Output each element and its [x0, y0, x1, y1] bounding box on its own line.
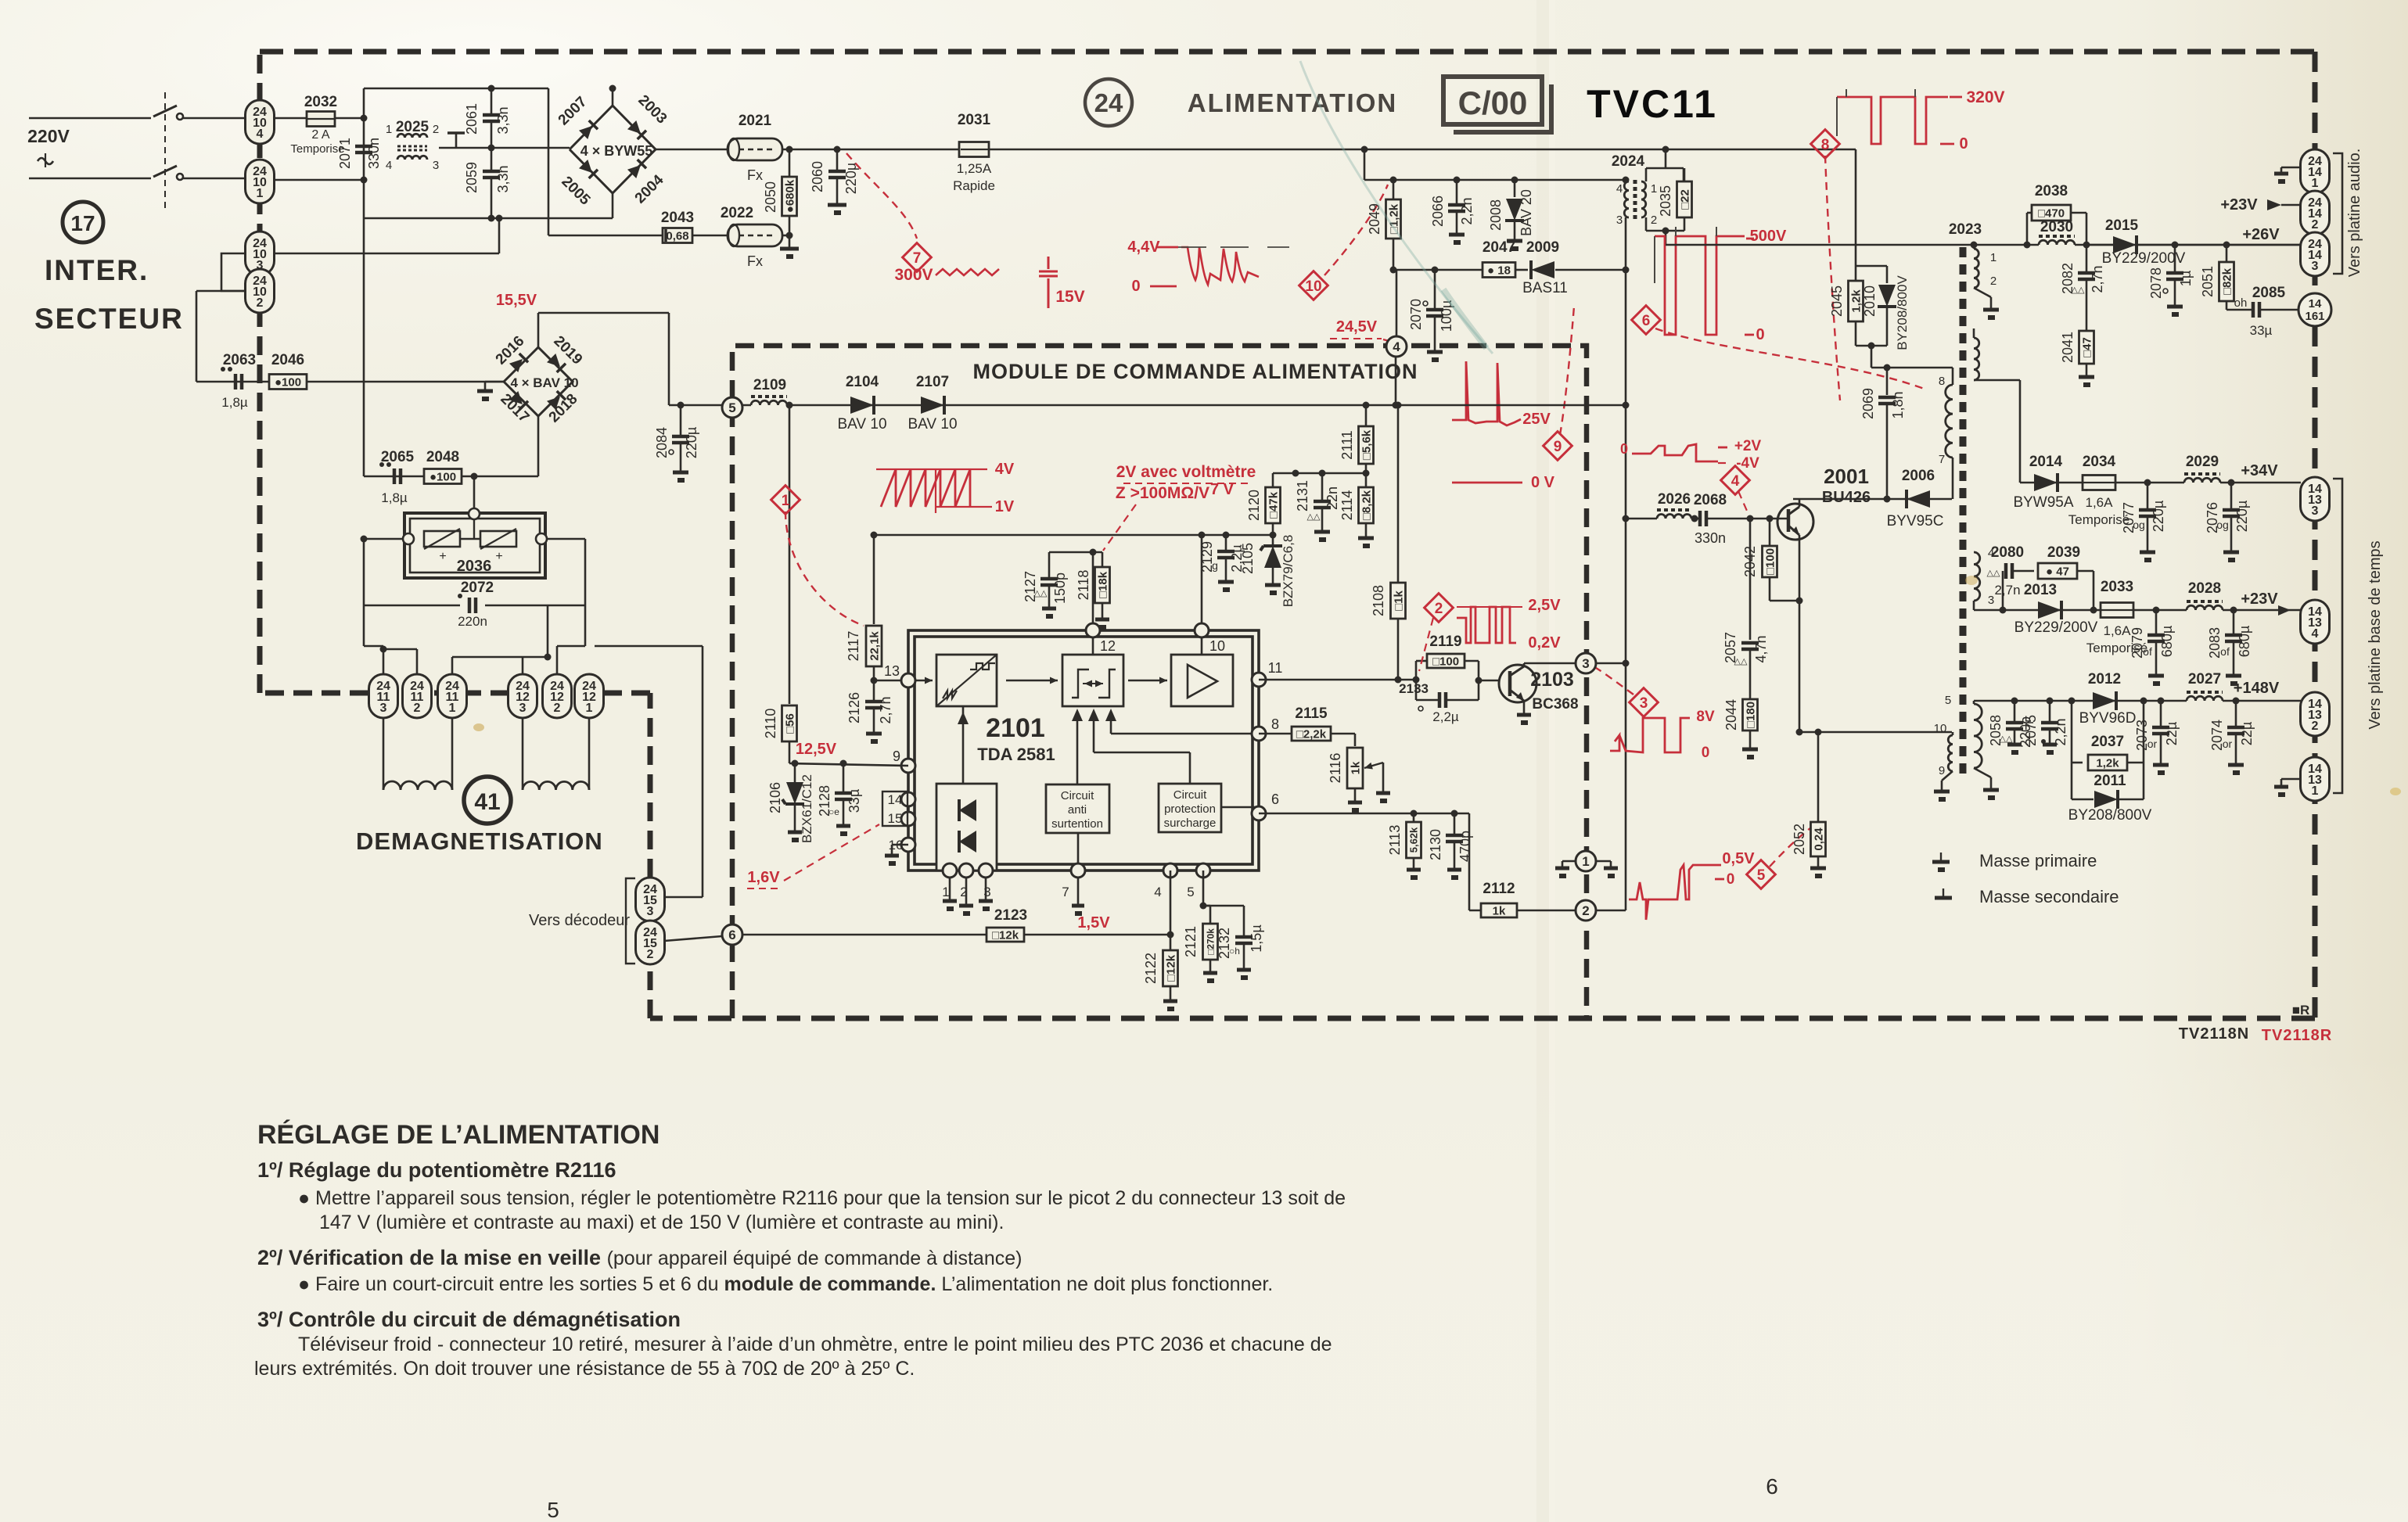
svg-text:470p: 470p	[1457, 831, 1473, 862]
svg-text:12,5V: 12,5V	[796, 741, 837, 758]
module dashed box	[732, 346, 1587, 1018]
svg-text:□5,6k: □5,6k	[1360, 429, 1373, 460]
outer dashed border notch vertical	[648, 693, 653, 1018]
svg-text:2109: 2109	[753, 377, 786, 393]
red dashed from 9 up	[1560, 307, 1574, 435]
svg-text:2107: 2107	[916, 374, 949, 390]
svg-text:9: 9	[1554, 439, 1562, 455]
svg-text:2117: 2117	[846, 631, 861, 662]
svg-text:220µ: 220µ	[2234, 501, 2250, 532]
svg-text:11: 11	[1268, 660, 1283, 676]
svg-text:2,2n: 2,2n	[1459, 197, 1475, 224]
svg-text:10: 10	[1934, 722, 1947, 735]
junction rail to 2024	[1662, 146, 1669, 153]
svg-text:2113: 2113	[1387, 825, 1403, 856]
svg-text:2,2µ: 2,2µ	[1432, 709, 1459, 724]
svg-text:BAV 10: BAV 10	[837, 416, 886, 433]
connector 24-10-3	[246, 232, 275, 275]
IC block amplifier	[1171, 655, 1233, 706]
svg-text:□8,2k: □8,2k	[1360, 490, 1373, 520]
shield mark	[447, 131, 465, 135]
wire circled4 into module	[1395, 357, 1397, 405]
svg-text:4: 4	[2312, 627, 2319, 641]
border node circle 4	[1386, 336, 1407, 357]
connector 24-10-2	[246, 269, 275, 313]
svg-text:2014: 2014	[2029, 454, 2063, 470]
svg-text:2: 2	[257, 296, 264, 310]
IC pin 16	[901, 838, 915, 852]
svg-text:2103: 2103	[1530, 669, 1574, 691]
svg-text:BU426: BU426	[1822, 489, 1871, 506]
test point diamond 7	[903, 243, 932, 272]
red test point diamond 1	[771, 486, 800, 515]
svg-text:+34V: +34V	[2241, 462, 2278, 479]
svg-text:2041: 2041	[2060, 332, 2076, 363]
svg-text:2047: 2047	[1483, 239, 1515, 256]
IC pin 4	[1163, 863, 1177, 878]
svg-text:1: 1	[257, 187, 264, 200]
svg-text:BAV 10: BAV 10	[907, 416, 957, 433]
test point diamond 10	[1299, 271, 1328, 300]
svg-text:0,2V: 0,2V	[1528, 634, 1561, 652]
svg-text:□18k: □18k	[1096, 571, 1109, 598]
svg-text:22n: 22n	[1324, 486, 1340, 510]
svg-text:2 A: 2 A	[311, 128, 329, 142]
svg-text:2029: 2029	[2186, 454, 2219, 470]
node circle 6	[722, 924, 742, 945]
svg-text:2114: 2114	[1339, 490, 1355, 521]
svg-text:9: 9	[893, 748, 900, 764]
svg-text:2032: 2032	[304, 94, 337, 110]
svg-text:2013: 2013	[2024, 582, 2057, 598]
red dashed from 10 to node	[1324, 185, 1388, 275]
connector 24-15-2	[664, 936, 722, 941]
svg-text:0: 0	[1959, 135, 1968, 153]
IC internal wires	[1006, 680, 1058, 682]
IC pin 8	[1252, 727, 1266, 741]
svg-text:2071: 2071	[337, 138, 353, 169]
PTC block 2036	[404, 513, 545, 578]
svg-text:22µ: 22µ	[2164, 722, 2180, 745]
svg-text:2038: 2038	[2035, 183, 2068, 199]
svg-text:22µ: 22µ	[2239, 722, 2255, 745]
svg-text:0: 0	[1702, 745, 1710, 761]
IC pin 10	[1195, 623, 1209, 637]
svg-text:7: 7	[1939, 453, 1945, 466]
wire rail to 2049	[1364, 149, 1366, 180]
wire 2035 junction down to +26V rail	[1665, 231, 1667, 245]
svg-text:□56: □56	[783, 713, 796, 734]
svg-text:2021: 2021	[739, 113, 772, 129]
svg-text:220µ: 220µ	[2151, 501, 2166, 532]
svg-text:□470: □470	[2038, 206, 2065, 220]
svg-text:BAS11: BAS11	[1522, 280, 1568, 296]
svg-text:1,8µ: 1,8µ	[381, 490, 408, 505]
resistor 2115 2,2k	[1259, 733, 1291, 735]
svg-text:2: 2	[414, 702, 421, 715]
capacitor 2069 1,8n	[1886, 368, 1889, 395]
svg-text:TV2118R: TV2118R	[2262, 1027, 2332, 1044]
svg-text:1,8n: 1,8n	[1890, 391, 1906, 418]
connector 24-10-4	[246, 100, 275, 144]
wire bridge top to 15,5V	[537, 313, 540, 347]
capacitor 2083 680u	[2230, 607, 2237, 614]
svg-text:□180: □180	[1744, 702, 1757, 728]
test point diamond 6	[1632, 306, 1661, 335]
resistor 2052 0,24	[1817, 732, 1820, 821]
svg-text:1º/ Réglage du potentiomètre: 1º/ Réglage du potentiomètre R2116	[257, 1158, 616, 1182]
resistor 2120 47k	[1272, 473, 1274, 486]
svg-text:3º/ Contrôle du circuit de dé: 3º/ Contrôle du circuit de démagnétisati…	[257, 1308, 681, 1331]
connector 14-13-3	[2301, 477, 2330, 521]
wire filter to 2065 row	[363, 218, 365, 476]
svg-text:2078: 2078	[2148, 267, 2164, 299]
transformer 2023 core	[1960, 247, 1967, 781]
capacitor 2127 150p	[1048, 552, 1051, 577]
svg-text:2122: 2122	[1143, 953, 1159, 984]
svg-text:□12k: □12k	[1164, 954, 1177, 982]
capacitor 2073 22u	[2158, 698, 2165, 705]
svg-text:+: +	[495, 550, 502, 563]
capacitor 2084 220u	[680, 405, 682, 435]
capacitor 2060 220u	[836, 149, 839, 171]
svg-text:○h: ○h	[1229, 946, 1240, 957]
test point diamond 4	[1721, 466, 1750, 495]
resistor 2114 8,2k	[1365, 473, 1368, 486]
svg-text:TVC11: TVC11	[1587, 82, 1718, 126]
red waveform 8V	[1610, 718, 1690, 752]
svg-text:RÉGLAGE DE L’ALIMENTATION: RÉGLAGE DE L’ALIMENTATION	[257, 1120, 660, 1150]
svg-text:2108: 2108	[1371, 585, 1386, 616]
red waveform 500V	[1655, 236, 1745, 335]
svg-text:● Mettre l’appareil sous tens: ● Mettre l’appareil sous tension, régler…	[298, 1187, 1346, 1209]
svg-text:2080: 2080	[1991, 544, 2024, 561]
svg-text:2043: 2043	[661, 210, 694, 226]
red dashed 1 to pin13 node	[785, 512, 864, 626]
potentiometer 2116 1k	[1354, 734, 1357, 746]
svg-text:2: 2	[2312, 720, 2319, 733]
svg-text:+23V: +23V	[2241, 590, 2278, 608]
switch 17 bottom contact	[153, 166, 177, 177]
svg-text:3: 3	[433, 159, 439, 172]
svg-text:4: 4	[1731, 473, 1740, 490]
svg-text:2: 2	[433, 123, 439, 136]
capacitor 2126 2,7n	[873, 680, 875, 702]
svg-text:10: 10	[1305, 278, 1321, 295]
bridge 2037 1,2k and 2011	[2071, 701, 2073, 763]
svg-text:3: 3	[380, 702, 387, 715]
zener 2105 BZX79/C6,8	[1272, 535, 1274, 547]
svg-text:BZX79/C6,8: BZX79/C6,8	[1281, 535, 1296, 608]
svg-text:2,7n: 2,7n	[1994, 583, 2020, 598]
svg-text:3: 3	[983, 885, 990, 899]
svg-text:220µ: 220µ	[684, 427, 699, 458]
svg-text:220µ: 220µ	[843, 163, 859, 194]
connector 24-11-3	[369, 674, 398, 718]
svg-text:2133: 2133	[1399, 681, 1429, 696]
capacitor 2131 22n	[1321, 473, 1324, 501]
svg-text:C/00: C/00	[1458, 84, 1528, 121]
svg-text:BY229/200V: BY229/200V	[2102, 250, 2186, 267]
IC pin 15	[901, 812, 915, 826]
wire snubber down	[1871, 346, 1873, 368]
svg-text:15,5V: 15,5V	[496, 292, 537, 309]
svg-text:2023: 2023	[1949, 221, 1982, 238]
op-amp IC 2101 TDA2581 outline	[908, 630, 1259, 870]
jumper 24-10-3 to 24-10-2	[221, 253, 246, 291]
svg-text:og: og	[2216, 519, 2229, 531]
row 2047 BAS11	[1393, 269, 1486, 271]
wire 2024 pin3 down long vertical	[1625, 217, 1627, 910]
svg-text:25V: 25V	[1522, 411, 1551, 428]
15,5V feed wire	[538, 312, 669, 314]
svg-text:2060: 2060	[810, 161, 825, 192]
svg-text:2009: 2009	[1526, 239, 1559, 256]
svg-text:+2V: +2V	[1734, 438, 1762, 454]
connector 24-12-2	[543, 674, 572, 718]
svg-text:surcharge: surcharge	[1164, 817, 1217, 830]
svg-text:2116: 2116	[1328, 753, 1343, 784]
svg-text:2120: 2120	[1246, 490, 1262, 521]
svg-text:2: 2	[554, 702, 561, 715]
IC block comparator	[1062, 655, 1123, 706]
test point diamond 5	[1747, 860, 1776, 889]
svg-text:1k: 1k	[1349, 761, 1362, 774]
wire pin13	[874, 680, 908, 682]
svg-text:1µ: 1µ	[2178, 271, 2194, 286]
svg-text:+23V: +23V	[2220, 196, 2258, 214]
svg-text:2131: 2131	[1295, 480, 1310, 512]
svg-text:TDA 2581: TDA 2581	[977, 745, 1055, 764]
red waveform 0,5V	[1629, 865, 1721, 920]
wire 24-10-1 to filter	[274, 179, 364, 181]
+26V rail	[1666, 244, 2039, 246]
wire node6 row	[742, 934, 987, 936]
svg-text:147 V (lumière et contraste au: 147 V (lumière et contraste au maxi) et …	[319, 1211, 1004, 1233]
grounds at circle 1	[1562, 860, 1576, 863]
connector 24-15-3	[664, 896, 703, 899]
red waveform 320V	[1837, 97, 1948, 144]
capacitor 2074 22u	[2233, 698, 2240, 705]
svg-text:1,6V: 1,6V	[747, 869, 780, 886]
wire bridge bottom	[612, 193, 614, 218]
svg-text:1V: 1V	[995, 498, 1015, 515]
transformer 2023 winding +34V tap	[1974, 338, 1979, 380]
wire mains bottom	[29, 178, 151, 180]
svg-text:2070: 2070	[1408, 299, 1424, 330]
capacitor 2058 220p	[2011, 698, 2018, 705]
filter mid rail	[439, 147, 570, 149]
svg-text:6: 6	[1642, 313, 1651, 329]
svg-text:2012: 2012	[2088, 671, 2121, 687]
wire pin6 out	[1259, 813, 1469, 815]
wire main rail to fuse 2031	[782, 149, 961, 151]
ground stub 24-14-1	[2281, 167, 2301, 169]
svg-text:2050: 2050	[763, 181, 778, 213]
svg-text:14: 14	[888, 792, 903, 807]
resistor 2110 56	[789, 405, 791, 704]
svg-text:0 V: 0 V	[1531, 474, 1555, 491]
svg-text:2: 2	[647, 948, 654, 961]
svg-text:680µ: 680µ	[2159, 626, 2175, 657]
red dashed to test point 7	[846, 153, 917, 239]
connector 24-10-1	[246, 160, 275, 203]
red waveform 25V	[1452, 361, 1521, 425]
svg-text:or: or	[2147, 738, 2158, 750]
wire node to circled 4	[1396, 270, 1398, 336]
svg-text:3: 3	[2312, 260, 2319, 273]
pins 14 15 box	[882, 792, 907, 826]
svg-text:0: 0	[1727, 871, 1735, 888]
red capacitor symbol 15V	[1048, 257, 1050, 269]
diode bridge 4xBAV10	[504, 347, 573, 416]
svg-text:5: 5	[1945, 694, 1951, 707]
svg-text:5: 5	[728, 400, 735, 415]
wire pin10 riser	[1201, 535, 1203, 630]
svg-text:2119: 2119	[1429, 634, 1461, 650]
wire pin5 riser	[1202, 870, 1205, 906]
svg-text:△△: △△	[2000, 734, 2013, 744]
svg-text:2037: 2037	[2091, 734, 2124, 750]
svg-text:△△: △△	[1307, 512, 1321, 522]
connector 14-161	[2298, 293, 2331, 326]
IC pin 11	[1252, 673, 1266, 687]
resistor 2051 82k	[2223, 242, 2230, 249]
svg-text:○e: ○e	[828, 806, 839, 817]
svg-text:4: 4	[257, 127, 264, 141]
svg-text:2123: 2123	[994, 907, 1027, 924]
svg-text:Masse secondaire: Masse secondaire	[1979, 887, 2119, 906]
svg-text:1,5V: 1,5V	[1077, 914, 1110, 932]
row 2065 2048	[364, 476, 538, 478]
svg-text:1,5µ: 1,5µ	[1249, 924, 1264, 952]
svg-text:leurs extrémités. On doit trou: leurs extrémités. On doit trouver une ré…	[254, 1358, 915, 1380]
filter box bottom rail	[364, 217, 613, 220]
svg-text:161: 161	[2305, 310, 2324, 323]
wire collector to node 3	[1524, 662, 1576, 665]
resistor 2111 5,6k	[1365, 405, 1368, 426]
svg-text:2111: 2111	[1339, 430, 1355, 459]
svg-text:2008: 2008	[1488, 199, 1504, 231]
svg-text:2059: 2059	[464, 162, 480, 193]
svg-text:2: 2	[1582, 903, 1589, 918]
svg-text:2,7n: 2,7n	[2090, 265, 2105, 293]
svg-text:1: 1	[1582, 854, 1589, 869]
mains symbol	[38, 158, 53, 164]
svg-text:□100: □100	[1432, 655, 1459, 668]
svg-text:●680k: ●680k	[783, 179, 796, 213]
demag coil right	[522, 718, 524, 782]
svg-text:3: 3	[1988, 594, 1994, 607]
svg-text:6: 6	[1766, 1474, 1778, 1499]
svg-text:1,6A: 1,6A	[2086, 495, 2114, 510]
svg-text:2031: 2031	[958, 112, 991, 128]
svg-text:BAV 20: BAV 20	[1518, 189, 1534, 236]
svg-text:0,24: 0,24	[1812, 827, 1825, 851]
svg-text:2035: 2035	[1658, 185, 1673, 217]
resistor 2113 5,62k	[1413, 813, 1415, 821]
wire 2036 right	[547, 538, 585, 540]
red label 320V	[1950, 96, 1962, 99]
svg-text:+148V: +148V	[2234, 680, 2280, 697]
divider wire 605	[1273, 472, 1366, 475]
svg-text:0,5V: 0,5V	[1722, 850, 1755, 867]
diode 2008 BAV20	[1514, 180, 1516, 197]
svg-text:2011: 2011	[2094, 773, 2126, 789]
PTC resistor left	[424, 531, 460, 547]
svg-text:△△: △△	[1987, 569, 2000, 578]
svg-text:Circuit: Circuit	[1061, 789, 1094, 802]
capacitor 2128 33u	[843, 763, 845, 793]
resistor 2108 1k riser	[1397, 405, 1400, 680]
red dashed from 8 down	[1825, 156, 1840, 400]
7V rail	[874, 534, 1273, 537]
svg-text:2034: 2034	[2083, 454, 2116, 470]
svg-text:Téléviseur froid - connecteur: Téléviseur froid - connecteur 10 retiré,…	[298, 1334, 1332, 1355]
svg-text:6: 6	[728, 928, 735, 942]
svg-text:5,62k: 5,62k	[1408, 827, 1420, 853]
main rail 300V	[988, 149, 1856, 151]
wire 2036 left	[364, 538, 403, 540]
svg-text:2010: 2010	[1862, 285, 1878, 317]
svg-text:300V: 300V	[894, 266, 933, 284]
IC pin 13	[908, 680, 933, 682]
red sawtooth waveform 4V 1V	[881, 469, 970, 507]
svg-text:8: 8	[1271, 716, 1279, 732]
wire mains top	[29, 117, 151, 120]
connector 24-12-1	[575, 674, 604, 718]
svg-text:2066: 2066	[1430, 196, 1446, 227]
svg-text:4: 4	[1393, 339, 1400, 354]
svg-text:BY229/200V: BY229/200V	[2014, 619, 2098, 636]
svg-text:2039: 2039	[2047, 544, 2080, 561]
wire to 2103 base	[1479, 680, 1499, 682]
capacitor 2129 2,2u	[1225, 535, 1227, 551]
svg-text:680µ: 680µ	[2237, 626, 2252, 657]
svg-text:6: 6	[1271, 792, 1279, 807]
svg-text:INTER.: INTER.	[45, 254, 149, 286]
outer dashed border bottom	[650, 1016, 2315, 1021]
pin12 network wire	[1092, 552, 1094, 630]
svg-text:330n: 330n	[366, 138, 382, 169]
svg-text:320V: 320V	[1966, 88, 2004, 106]
capacitor 2066 2,2n	[1456, 180, 1458, 205]
svg-text:22,1k: 22,1k	[868, 631, 881, 661]
svg-text:1,2k: 1,2k	[2096, 756, 2119, 770]
svg-text:2015: 2015	[2105, 217, 2139, 234]
border node circle 3	[1576, 653, 1596, 673]
svg-text:2,2n: 2,2n	[2053, 718, 2068, 745]
switch mechanical link	[164, 92, 166, 210]
svg-text:2126: 2126	[846, 692, 862, 723]
svg-text:2028: 2028	[2188, 580, 2221, 597]
wire bridge top	[612, 88, 614, 106]
svg-text:4: 4	[1616, 182, 1623, 196]
svg-text:△△: △△	[1734, 657, 1748, 666]
filter box top rail	[364, 88, 548, 90]
svg-text:4V: 4V	[995, 461, 1015, 478]
svg-text:4 × BAV 10: 4 × BAV 10	[510, 375, 578, 390]
capacitor 2082 2,7n	[2086, 245, 2088, 273]
border node circle 2	[1576, 900, 1596, 921]
svg-text:2V avec voltmètre: 2V avec voltmètre	[1116, 463, 1256, 481]
wire emitter down	[1799, 535, 1801, 732]
capacitor 2070 100u	[1434, 270, 1436, 308]
svg-text:4,4V: 4,4V	[1127, 239, 1160, 256]
svg-text:2085: 2085	[2252, 285, 2286, 301]
bracket vers platine base de temps	[2333, 479, 2342, 793]
PTC terminals	[403, 533, 414, 544]
